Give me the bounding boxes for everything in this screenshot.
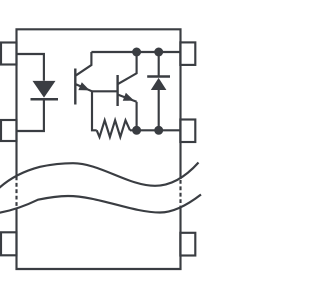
pin 1 (top left) [1, 43, 17, 65]
diode D2 (protection diode across output) [147, 52, 170, 130]
LED D1 (emitter diode) [31, 81, 59, 99]
junction node: diode cathode / top rail [154, 48, 163, 57]
transistor Q2 (second darlington stage) [118, 52, 137, 130]
pin 3 (bottom left) [1, 232, 17, 255]
resistor R1 (base-emitter resistor) [97, 120, 130, 137]
pin 2 (middle left) [1, 120, 17, 141]
wire: bottom rail (resistor to pin 5) [130, 129, 181, 131]
break squiggle upper [0, 163, 199, 190]
junction node: Q2 collector / top rail [132, 48, 141, 57]
junction node: diode anode / bottom rail [154, 126, 163, 135]
break squiggle lower [0, 195, 201, 214]
pin 5 (middle right) [180, 120, 195, 143]
wire: pin1 to LED anode [17, 54, 44, 81]
IC package body U1 [17, 29, 181, 269]
wire: LED cathode to pin2 [17, 99, 44, 131]
wire: top rail (collectors to pin 6) [91, 51, 180, 53]
junction node: Q2 emitter / bottom rail [132, 126, 141, 135]
wire: Q1 emitter to Q2 base [92, 90, 118, 92]
wire: Q1 emitter junction down to resistor [92, 91, 97, 130]
dashed left edge segment [15, 177, 17, 209]
transistor Q1 (first darlington stage) [75, 52, 92, 105]
pin 4 (bottom right) [180, 233, 195, 256]
dashed right edge segment [179, 180, 181, 208]
pin 6 (top right) [180, 42, 195, 65]
